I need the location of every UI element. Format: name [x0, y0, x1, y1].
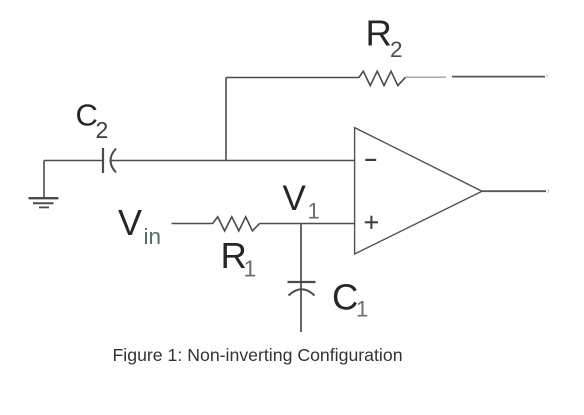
resistor R1	[213, 217, 260, 231]
svg-text:in: in	[144, 224, 162, 249]
wire: faint tail after feedback wire	[547, 75, 548, 79]
capacitor C1	[288, 282, 316, 296]
wire: feedback horizontal to R2	[226, 77, 359, 79]
capacitor C2	[103, 148, 116, 173]
op-amp U1	[355, 128, 482, 254]
node V1 / wire down to C1	[300, 224, 302, 333]
svg-text:2: 2	[390, 37, 403, 62]
svg-text:1: 1	[308, 199, 320, 224]
wire: R1 to op-amp non-inverting input	[260, 223, 355, 225]
wire: feedback vertical riser	[225, 78, 227, 162]
svg-text:C: C	[332, 276, 358, 317]
wire: faint tail after output wire	[548, 190, 549, 194]
op-amp inverting pin mark (-)	[365, 159, 376, 161]
wire: R2 right light segment	[406, 76, 446, 78]
op-amp non-inverting pin mark (+)	[365, 216, 378, 229]
wire: C2 to op-amp inverting input	[111, 160, 355, 162]
svg-text:R: R	[366, 12, 392, 53]
ground	[29, 161, 59, 208]
wire: input net left segment to C2	[44, 160, 103, 162]
svg-text:2: 2	[96, 117, 109, 143]
wire: Vin to R1	[172, 223, 213, 225]
svg-text:V: V	[118, 202, 142, 243]
svg-text:Figure 1: Non-inverting Config: Figure 1: Non-inverting Configuration	[113, 345, 403, 365]
svg-text:1: 1	[244, 255, 257, 281]
svg-text:V: V	[283, 179, 307, 218]
resistor R2	[359, 71, 406, 85]
wire: feedback to output net (right)	[452, 76, 545, 78]
svg-text:1: 1	[356, 297, 368, 322]
wire: op-amp output	[482, 190, 546, 192]
